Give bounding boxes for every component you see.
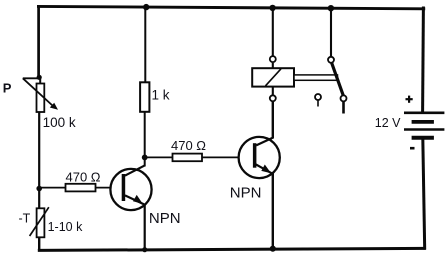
svg-text:470 Ω: 470 Ω (171, 138, 206, 153)
svg-text:P: P (3, 80, 12, 95)
svg-text:NPN: NPN (230, 184, 262, 201)
svg-text:470 Ω: 470 Ω (66, 170, 101, 185)
svg-text:1 k: 1 k (152, 87, 170, 102)
svg-text:NPN: NPN (149, 210, 181, 227)
svg-text:12 V: 12 V (375, 116, 401, 130)
svg-text:1-10 k: 1-10 k (48, 220, 83, 234)
svg-text:100 k: 100 k (43, 115, 76, 130)
svg-text:-T: -T (19, 212, 31, 226)
